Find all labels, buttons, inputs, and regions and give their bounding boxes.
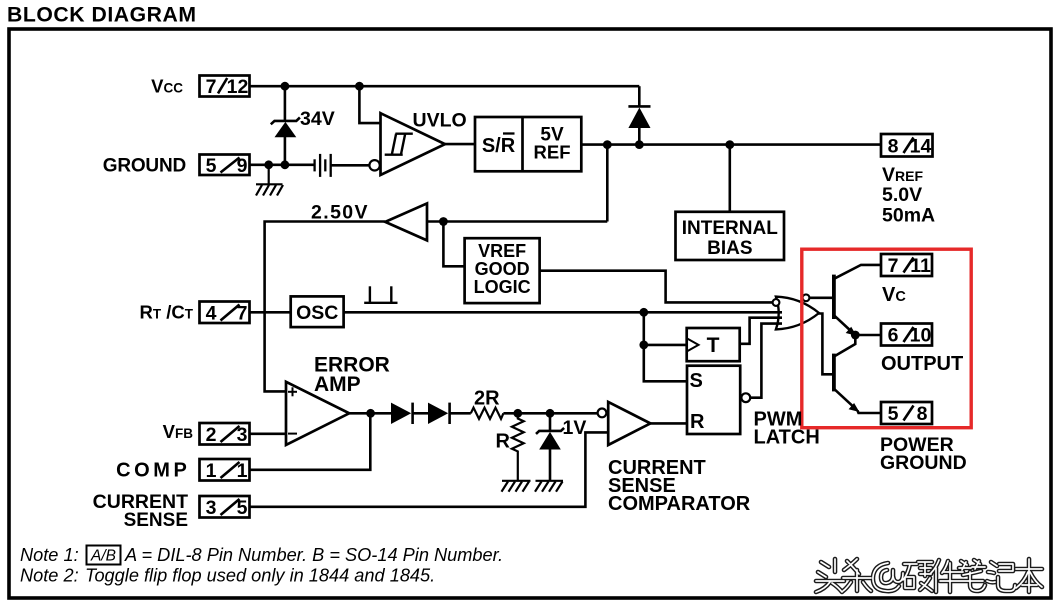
wire junction down to VREF GOOD LOGIC input [443, 222, 464, 267]
resistor R (vertical) [512, 413, 524, 481]
svg-text:8: 8 [917, 403, 928, 425]
node zener 1V junction [546, 409, 555, 418]
wire RT/CT to OSC [250, 311, 291, 314]
wire latch output to gate [750, 324, 782, 398]
diode D2 [428, 403, 448, 424]
red highlight box around output stage [802, 249, 971, 428]
wire zener to ground rail [284, 137, 287, 165]
pin box 3/5 (CURRENT SENSE) [200, 496, 250, 518]
wire junction down to T input and S input [644, 312, 687, 381]
node VCC-zener junction [281, 82, 290, 91]
wire VCC rail drop to diode [638, 86, 641, 106]
wire VREF GOOD LOGIC output to gate [540, 271, 773, 303]
svg-text:9: 9 [237, 155, 248, 177]
pin box 1/1 (COMP) [200, 459, 250, 481]
wire UVLO to S/R box [445, 143, 475, 146]
svg-text:12: 12 [227, 76, 249, 98]
zener diode 1V cathode bar [536, 428, 564, 434]
svg-text:2R: 2R [474, 388, 500, 410]
current sense comparator input bubble [598, 409, 607, 418]
svg-text:7: 7 [888, 255, 899, 277]
svg-text:T: T [707, 334, 720, 357]
resistor 2R [471, 408, 504, 419]
svg-text:A/B: A/B [90, 548, 116, 565]
box OSC [291, 296, 344, 327]
svg-text:LOGIC: LOGIC [474, 277, 531, 297]
svg-text:4: 4 [206, 303, 217, 325]
wire CURRENT SENSE pin to comparator lower input [250, 432, 609, 506]
svg-text:GOOD: GOOD [475, 259, 530, 279]
buffer amp 2.50V (points left) [385, 203, 427, 240]
node OSC line junction [639, 308, 648, 317]
node diode junction on VREF rail [635, 140, 644, 149]
latch output bubble [741, 393, 750, 402]
UVLO input bubble [369, 160, 379, 170]
wire zener drop [284, 86, 287, 121]
pin box 6/10 (OUTPUT) [881, 324, 932, 346]
svg-text:14: 14 [910, 136, 932, 158]
svg-text:GROUND: GROUND [880, 452, 967, 474]
wire gate output to lower transistor base [818, 314, 834, 375]
diode D3 cathode bar [628, 105, 650, 108]
node 2.50V junction [439, 217, 448, 226]
wire amp base to junction [427, 220, 443, 223]
svg-text:REF: REF [534, 142, 571, 163]
wire battery to UVLO bubble [331, 164, 370, 167]
wire OSC output to gate [344, 311, 782, 314]
wire to T flip flop clock [644, 344, 687, 347]
transistor Q1 emitter [834, 315, 852, 332]
wire D2 to resistor 2R [450, 412, 471, 415]
node error amp output junction [366, 409, 375, 418]
node resistor R junction [513, 409, 522, 418]
pin box 7/11 (VC) [881, 254, 932, 276]
wire VFB to error amp inverting input [250, 432, 287, 435]
op-amp CURRENT SENSE COMPARATOR [608, 402, 650, 445]
wire Q2 emitter to 5/8 pin [858, 411, 882, 414]
wire gate top bubble to upper transistor base [809, 296, 834, 299]
wire 2.50V horizontal [443, 220, 607, 223]
svg-text:Toggle flip flop used only in: Toggle flip flop used only in 1844 and 1… [85, 566, 435, 586]
latch PWM S/R box [687, 366, 740, 434]
pin box 4/7 (RT/CT) [200, 302, 250, 324]
node internal-bias junction [725, 140, 734, 149]
svg-text:3: 3 [237, 424, 248, 446]
svg-text:VREF: VREF [478, 241, 526, 261]
svg-text:S: S [690, 370, 703, 392]
clock triangle on T box [687, 338, 699, 351]
transistor Q2 collector [834, 335, 855, 357]
minus sign in error amp [288, 433, 297, 435]
op-amp UVLO comparator [381, 113, 446, 175]
pin box 8/14 (VREF) [881, 134, 933, 157]
wire VREF rail [581, 143, 881, 146]
gate bubble top (to upper transistor base) [803, 294, 810, 301]
box INTERNAL BIAS [676, 212, 785, 260]
svg-text:34V: 34V [300, 108, 335, 130]
watermark 头条@硬件笔记本 [816, 559, 1042, 592]
pin box 7/12 (VCC) [200, 76, 250, 97]
svg-text:5: 5 [888, 403, 899, 425]
wire COMP feedback [250, 413, 371, 470]
svg-text:5.0V: 5.0V [882, 184, 922, 206]
svg-text:COMP: COMP [116, 460, 190, 482]
svg-text:5: 5 [237, 497, 248, 519]
overbar for R in S/R [503, 132, 515, 134]
svg-text:A = DIL-8 Pin Number. B = SO-1: A = DIL-8 Pin Number. B = SO-14 Pin Numb… [124, 545, 503, 565]
op-amp ERROR AMP [286, 382, 349, 445]
svg-text:OSC: OSC [296, 302, 338, 324]
svg-text:50mA: 50mA [882, 205, 935, 227]
svg-text:6: 6 [888, 325, 899, 347]
svg-text:2: 2 [206, 424, 217, 446]
svg-text:BIAS: BIAS [707, 238, 752, 259]
svg-text:1: 1 [206, 460, 217, 482]
wire 2.50V amp output to error amp non-inverting input [265, 222, 386, 392]
ground symbol under zener 1V [535, 481, 563, 492]
svg-text:10: 10 [910, 325, 932, 347]
svg-text:SENSE: SENSE [124, 510, 188, 531]
transistor Q1 collector [834, 265, 881, 279]
wire zener 1V to ground [549, 450, 552, 481]
wire diode to VREF rail [638, 128, 641, 145]
pin box 2/3 (VFB) [200, 423, 250, 445]
node ground-symbol junction [264, 160, 273, 169]
wire VCC rail [250, 85, 640, 88]
svg-text:VREF: VREF [882, 164, 923, 186]
transistor Q1 base bar [832, 275, 836, 319]
svg-text:GROUND: GROUND [103, 156, 186, 177]
svg-text:7: 7 [237, 303, 248, 325]
battery offset symbol [315, 154, 331, 177]
node T flip flop input junction [639, 341, 648, 350]
wire junction to zener 1V [549, 413, 552, 431]
node 2.50V riser junction [603, 140, 612, 149]
wire VREF rail to INTERNAL BIAS [728, 145, 731, 212]
wire VREF rail to 2.50V line riser [606, 145, 609, 222]
zener diode 34V anode triangle [275, 122, 297, 137]
wire comparator output to R of latch [650, 422, 687, 425]
wire D1 to D2 [413, 412, 428, 415]
ground symbol at GROUND pin [256, 165, 283, 196]
svg-text:1: 1 [237, 460, 248, 482]
svg-text:AMP: AMP [314, 373, 361, 396]
gate input bubble left [773, 299, 780, 306]
diode D3 anode triangle [628, 108, 650, 129]
svg-text:COMPARATOR: COMPARATOR [608, 493, 751, 515]
wire GROUND rail [250, 164, 314, 167]
svg-text:OUTPUT: OUTPUT [881, 353, 963, 375]
svg-text:1V: 1V [563, 417, 587, 439]
svg-text:5: 5 [206, 155, 217, 177]
svg-text:11: 11 [910, 255, 931, 277]
svg-text:R: R [496, 431, 511, 453]
svg-text:Note 1:: Note 1: [20, 545, 79, 565]
pin box 5/8 (POWER GROUND) [881, 402, 932, 424]
gate NOR (OR shape with input bubbles) [776, 297, 819, 330]
node zener-ground junction [281, 160, 290, 169]
wire 2R to comparator bubble [503, 412, 597, 415]
S/R + 5V REF block [475, 117, 581, 171]
box VREF GOOD LOGIC [465, 238, 540, 303]
wire junction to 6/10 pin [855, 334, 881, 337]
wire error amp output [349, 412, 391, 415]
pin box 5/9 (GROUND) [200, 155, 250, 176]
diode D1 [391, 403, 411, 424]
svg-text:Note 2:: Note 2: [20, 566, 79, 586]
svg-text:S/R: S/R [482, 135, 516, 157]
transistor Q2 base bar [832, 354, 836, 392]
svg-text:3: 3 [206, 497, 217, 519]
plus sign in error amp [288, 387, 297, 396]
zener diode 1V anode triangle [539, 432, 561, 450]
svg-text:2.50V: 2.50V [311, 202, 369, 224]
node output junction [851, 331, 860, 340]
svg-text:R: R [690, 411, 705, 433]
transistor Q2 emitter [834, 389, 855, 408]
svg-text:8: 8 [888, 136, 899, 158]
svg-text:BLOCK DIAGRAM: BLOCK DIAGRAM [7, 4, 197, 27]
hysteresis glyph inside UVLO [385, 134, 413, 155]
svg-text:UVLO: UVLO [413, 110, 467, 132]
node VCC-UVLO junction [355, 82, 364, 91]
svg-text:LATCH: LATCH [754, 427, 820, 449]
flip flop T box [687, 328, 740, 361]
ground symbol under R [502, 481, 531, 492]
svg-text:INTERNAL: INTERNAL [682, 218, 778, 239]
zener diode 34V cathode bar [271, 118, 300, 125]
wire VCC to UVLO upper input [359, 86, 380, 123]
clock pulse symbol [364, 286, 397, 303]
wire T output to gate [740, 318, 782, 344]
svg-text:7: 7 [206, 76, 217, 98]
